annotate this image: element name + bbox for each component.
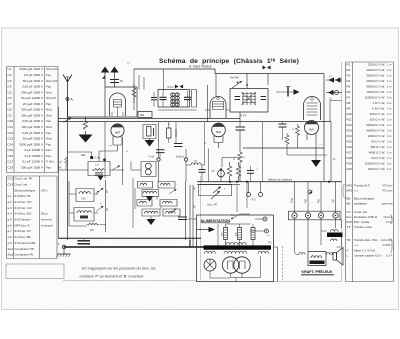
svg-text:CV: CV <box>347 210 351 214</box>
RF input terminal 1 <box>104 71 106 87</box>
svg-text:C4: C4 <box>8 85 12 89</box>
tuner mid bus <box>105 180 107 232</box>
step wire <box>222 158 240 168</box>
svg-text:C4b: C4b <box>81 198 86 201</box>
svg-text:M.F.1: M.F.1 <box>168 86 175 89</box>
output terminal T2 <box>326 92 342 94</box>
svg-text:M.F.F.: M.F.F. <box>240 114 247 118</box>
tube V1 grid <box>114 100 122 108</box>
svg-text:Pap.: Pap. <box>46 119 52 123</box>
svg-text:Bob. mobile: Bob. mobile <box>354 220 370 224</box>
svg-text:R7: R7 <box>347 95 351 99</box>
table braces <box>343 184 392 253</box>
electrolytic C17 <box>251 228 255 240</box>
electrolytic C16b <box>238 228 242 240</box>
svg-text:Cond. var. ··: Cond. var. ·· <box>15 182 31 186</box>
svg-text:T.P: T.P <box>347 225 351 229</box>
strip wires down <box>295 218 336 251</box>
tube 6V6 <box>305 121 319 135</box>
svg-text:a.6: a.6 <box>8 223 12 227</box>
svg-text:0,05 µF 1500 V: 0,05 µF 1500 V <box>22 119 44 123</box>
right feed wire <box>277 247 279 282</box>
svg-text:6×9 Gamme BE: 6×9 Gamme BE <box>15 241 36 245</box>
svg-text:200 Ω ½ W.: 200 Ω ½ W. <box>370 117 386 121</box>
svg-text:a.3: a.3 <box>8 206 12 210</box>
svg-text:Sw1: Sw1 <box>8 247 14 251</box>
coil L5 <box>143 191 157 193</box>
svg-text:échangés: échangés <box>41 223 54 227</box>
switch arrows L1 L2 <box>96 188 104 194</box>
svg-text:MA: MA <box>58 167 62 170</box>
svg-text:Transfo sortie: Transfo sortie <box>354 225 372 229</box>
node A <box>66 98 69 101</box>
svg-text:6×9 Acc. BE: 6×9 Acc. BE <box>15 235 31 239</box>
svg-text:Pap.: Pap. <box>46 142 52 146</box>
output transfo TP <box>331 229 339 231</box>
switch arrows <box>211 191 220 199</box>
svg-text:Lampes cadran 6,3 v: Lampes cadran 6,3 v <box>354 254 382 258</box>
svg-text:V: V <box>347 249 349 253</box>
svg-text:C15: C15 <box>8 148 14 152</box>
padder cap <box>178 217 187 220</box>
ground arrow output <box>315 140 317 160</box>
svg-text:0,5 µF 1500 V: 0,5 µF 1500 V <box>24 73 44 77</box>
svg-text:a.2: a.2 <box>8 200 12 204</box>
capacitor C1 on input <box>110 80 119 83</box>
resistor value table <box>346 62 394 282</box>
main wire row <box>59 169 125 171</box>
speaker <box>333 253 337 261</box>
svg-text:Rail Réf: Rail Réf <box>230 77 239 80</box>
svg-text:éléments: éléments <box>41 218 53 222</box>
left edge wire <box>58 107 60 239</box>
wire drops <box>205 122 209 182</box>
switch arrow r1 <box>169 189 177 194</box>
coil L9 <box>163 209 180 216</box>
cap outside MF1 <box>151 98 157 100</box>
svg-text:C10: C10 <box>8 119 14 123</box>
svg-text:Bl2: Bl2 <box>347 202 352 206</box>
resistor R3 <box>132 84 136 104</box>
svg-text:Excitation 1200 Ω: Excitation 1200 Ω <box>354 215 378 219</box>
svg-text:Mica: Mica <box>46 90 52 94</box>
svg-text:2000 Ω ½ W.: 2000 Ω ½ W. <box>368 167 385 171</box>
svg-text:C13: C13 <box>8 137 14 141</box>
svg-text:6×9 Osc. PO: 6×9 Osc. PO <box>15 200 33 204</box>
MF1 bottom wires <box>158 109 197 111</box>
svg-text:C3: C3 <box>8 79 12 83</box>
svg-text:20 Ω ½ W.: 20 Ω ½ W. <box>371 156 385 160</box>
trimmer bowtie 2 <box>263 66 267 70</box>
svg-text:R16: R16 <box>347 145 353 149</box>
coil L6 <box>137 200 152 207</box>
svg-text:C12: C12 <box>8 131 14 135</box>
svg-text:30000 Ω ½ W.: 30000 Ω ½ W. <box>366 73 385 77</box>
node K3 <box>157 158 160 161</box>
svg-text:Pap.: Pap. <box>46 73 52 77</box>
tube V1 envelope <box>110 93 126 116</box>
cap C7 <box>174 144 183 147</box>
svg-text:6H8: 6H8 <box>216 130 221 134</box>
svg-text:MF2: MF2 <box>347 189 353 193</box>
electrolytic C15 <box>224 228 228 240</box>
svg-text:472 kc/s: 472 kc/s <box>382 189 393 193</box>
svg-text:Valve 5 Y 3 G.B.: Valve 5 Y 3 G.B. <box>354 249 376 253</box>
tube 6M7 <box>111 124 124 137</box>
svg-text:A.: A. <box>71 98 74 102</box>
svg-text:40000 Ω ½ W.: 40000 Ω ½ W. <box>366 68 385 72</box>
HT rail upper <box>59 118 241 120</box>
svg-text:2×350 v: 2×350 v <box>382 243 393 247</box>
dial lamp <box>204 259 216 271</box>
svg-text:Cond. var. Ph: Cond. var. Ph <box>15 177 33 181</box>
pot with arrow <box>218 170 225 177</box>
svg-text:6×9 Gamme: 6×9 Gamme <box>15 218 32 222</box>
svg-text:R13: R13 <box>347 128 353 132</box>
svg-text:R2: R2 <box>347 68 351 72</box>
switch arrow <box>112 166 120 171</box>
svg-text:0,05 µF 1500 V: 0,05 µF 1500 V <box>22 85 44 89</box>
svg-text:TR: TR <box>268 242 272 245</box>
wire drop PU <box>262 122 264 182</box>
svg-text:Blocs: Blocs <box>41 212 48 216</box>
tube 6H8 <box>212 123 226 137</box>
svg-text:R₁₂: R₁₂ <box>292 129 295 131</box>
svg-text:Mica 50: Mica 50 <box>46 96 56 100</box>
output terminal T1 <box>326 79 342 81</box>
svg-text:R17: R17 <box>347 150 353 154</box>
svg-text:2000 Ω ½ W.: 2000 Ω ½ W. <box>368 134 385 138</box>
svg-text:0,05 µF 1500 V: 0,05 µF 1500 V <box>22 131 44 135</box>
svg-text:R18: R18 <box>347 156 353 160</box>
terminal T <box>62 245 66 249</box>
svg-text:4000 Ω 1 W.: 4000 Ω 1 W. <box>369 150 385 154</box>
svg-text:R1: R1 <box>347 62 351 66</box>
svg-text:Amb. PK: Amb. PK <box>206 203 218 207</box>
svg-text:P. Mét.: P. Mét. <box>46 160 55 164</box>
svg-text:Pap.: Pap. <box>46 85 52 89</box>
MF1 trimmer caps <box>160 97 192 99</box>
svg-text:1 M ½ W.: 1 M ½ W. <box>373 101 386 105</box>
svg-text:R₄: R₄ <box>168 124 171 126</box>
svg-text:R₁: R₁ <box>61 160 63 163</box>
cap arrow down <box>150 217 152 220</box>
svg-text:Transfo M.F.: Transfo M.F. <box>354 184 370 188</box>
svg-text:C6: C6 <box>8 96 12 100</box>
tube V4 envelope <box>304 97 321 121</box>
svg-text:R6: R6 <box>347 90 351 94</box>
main earth bus <box>197 181 342 183</box>
svg-text:50 Ω ½ W.: 50 Ω ½ W. <box>371 139 385 143</box>
IF transformer MF2 box <box>230 89 268 113</box>
corner box <box>330 101 342 122</box>
resistor R13 <box>285 133 289 155</box>
chassis bottom bold <box>64 246 204 248</box>
svg-text:Mica 200: Mica 200 <box>46 67 58 71</box>
svg-text:C8: C8 <box>8 108 12 112</box>
node K4 <box>184 158 187 161</box>
svg-text:Mica 200: Mica 200 <box>46 79 58 83</box>
empty stamp box <box>6 264 64 279</box>
measurement strip <box>289 211 341 220</box>
svg-text:6×9 Osc. GO: 6×9 Osc. GO <box>15 206 33 210</box>
cap C13 <box>279 124 287 127</box>
svg-text:a.7: a.7 <box>8 229 12 233</box>
svg-text:472 kc/s: 472 kc/s <box>382 184 393 188</box>
svg-text:20 µµF 1500 V: 20 µµF 1500 V <box>23 102 44 106</box>
svg-text:100000 Ω ½ W.: 100000 Ω ½ W. <box>365 95 386 99</box>
svg-text:C9: C9 <box>8 113 12 117</box>
svg-text:50 µµF 1500 V: 50 µµF 1500 V <box>23 137 44 141</box>
right box edge <box>323 74 325 149</box>
svg-text:KRAFT. PRÉLEUX: KRAFT. PRÉLEUX <box>302 269 333 274</box>
svg-text:R20: R20 <box>347 167 353 171</box>
trimmer bowtie 1 <box>175 85 179 89</box>
coil / misc table <box>7 176 58 259</box>
svg-text:Pap.: Pap. <box>46 131 52 135</box>
PU contacts <box>247 193 251 197</box>
resistor R1 vert <box>65 157 68 170</box>
cathode RC box <box>88 162 110 176</box>
svg-text:Elec.: Elec. <box>46 148 52 152</box>
svg-text:+C.A.FF: +C.A.FF <box>187 218 197 221</box>
svg-text:500 µµF 1500 V: 500 µµF 1500 V <box>21 166 44 170</box>
svg-text:C₁₃: C₁₃ <box>319 144 322 146</box>
coil L2 box <box>74 208 94 222</box>
svg-text:C2: C2 <box>8 73 12 77</box>
screen resistor zigzag <box>239 112 241 126</box>
coil L1 box <box>76 189 94 202</box>
small arrow <box>102 76 106 80</box>
svg-text:8µF: 8µF <box>222 232 224 236</box>
node K2 <box>103 158 106 161</box>
top bus wire <box>134 69 324 74</box>
power box <box>197 215 274 282</box>
resistor damp <box>87 223 99 225</box>
RF input terminal 2 <box>114 71 116 87</box>
svg-text:R₇: R₇ <box>243 157 246 159</box>
svg-text:Pap.: Pap. <box>46 166 52 170</box>
svg-text:A. Haut Parleur.: A. Haut Parleur. <box>188 65 212 69</box>
svg-text:50 µµF 1500 V: 50 µµF 1500 V <box>23 79 44 83</box>
resistor R14 <box>227 162 231 182</box>
svg-text:R8: R8 <box>347 101 351 105</box>
svg-text:0,3 A: 0,3 A <box>386 254 393 258</box>
svg-text:R4: R4 <box>347 79 351 83</box>
ground arrow 2 <box>149 139 151 141</box>
IF transformer MF1 box <box>158 90 190 108</box>
valve V <box>222 257 238 273</box>
diode mark <box>308 190 312 194</box>
svg-text:C7: C7 <box>8 102 12 106</box>
svg-text:CV1: CV1 <box>8 177 14 181</box>
mains arrow <box>197 229 209 231</box>
svg-text:R9: R9 <box>347 106 351 110</box>
transformer TR coils top <box>226 242 246 245</box>
svg-text:contacts 'P' se ferment et: contacts 'P' se ferment et 'B' s'ouvrent <box>80 275 145 279</box>
svg-text:Schéma de principe (Châssis 1ʳ: Schéma de principe (Châssis 1ʳᵉ Série) <box>159 58 299 65</box>
svg-text:100 µµF 1500 V: 100 µµF 1500 V <box>21 113 44 117</box>
fuse drop <box>237 182 247 212</box>
svg-text:oscillateur: oscillateur <box>354 202 367 206</box>
svg-text:C16: C16 <box>8 154 14 158</box>
resistor R9 <box>238 152 242 182</box>
svg-text:« »: « » <box>354 189 358 193</box>
svg-text:Mica: Mica <box>46 113 52 117</box>
svg-text:Réf: Réf <box>140 113 144 117</box>
coil L8 <box>142 209 160 216</box>
svg-text:5000 µµF 1500 V: 5000 µµF 1500 V <box>19 142 43 146</box>
RC block 1 <box>143 125 156 139</box>
svg-text:Pap.: Pap. <box>46 102 52 106</box>
bottom wires <box>210 256 261 278</box>
svg-text:R10: R10 <box>347 112 353 116</box>
svg-text:Rau: Rau <box>81 153 86 157</box>
resistor R15 <box>236 162 240 182</box>
svg-text:6×9 Bloc HF: 6×9 Bloc HF <box>15 194 31 198</box>
svg-text:8 µF 12000 V: 8 µF 12000 V <box>25 148 44 152</box>
wire x105 down <box>104 122 106 178</box>
tuner wires <box>131 162 141 171</box>
svg-text:R11: R11 <box>347 117 353 121</box>
svg-text:C1: C1 <box>8 67 12 71</box>
svg-text:2000 Ω ½ W.: 2000 Ω ½ W. <box>368 62 385 66</box>
svg-text:100 µµF 1500 V: 100 µµF 1500 V <box>21 125 44 129</box>
svg-text:Contacteur HP: Contacteur HP <box>15 247 34 251</box>
svg-text:C14: C14 <box>8 142 14 146</box>
svg-text:a.5: a.5 <box>8 218 12 222</box>
inner wires <box>218 224 253 247</box>
tuner right bus pair <box>186 182 194 248</box>
choke coil <box>191 163 201 165</box>
svg-text:10000 Ω ½ W.: 10000 Ω ½ W. <box>366 90 385 94</box>
antenna <box>63 75 72 118</box>
svg-text:C17: C17 <box>8 160 14 164</box>
svg-text:C5: C5 <box>8 90 12 94</box>
separator lines <box>63 62 342 282</box>
svg-text:100000 Ω ½ W.: 100000 Ω ½ W. <box>365 161 386 165</box>
switch above MF2 <box>237 82 239 84</box>
svg-text:R14: R14 <box>347 134 353 138</box>
svg-text:6×9 Osc. Ph: 6×9 Osc. Ph <box>15 229 32 233</box>
coil L7 <box>160 200 177 207</box>
field coil box <box>308 252 326 266</box>
svg-text:P.U.: P.U. <box>252 198 257 202</box>
MF2 coil hatch <box>243 92 255 105</box>
speaker squiggles <box>299 253 305 255</box>
arrow mark on wire <box>64 118 72 123</box>
capacitor value table <box>7 67 59 173</box>
svg-text:Transfo Alim. Prim: Transfo Alim. Prim <box>354 238 378 242</box>
svg-text:2,5 Ω: 2,5 Ω <box>386 220 393 224</box>
svg-text:200 µµF 1500 V: 200 µµF 1500 V <box>21 90 44 94</box>
MF2 trimmers <box>235 97 267 100</box>
svg-text:R19: R19 <box>347 161 353 165</box>
tuner left bus <box>68 181 70 226</box>
HT rail lower <box>59 121 332 123</box>
svg-text:Contacteur Ph: Contacteur Ph <box>15 253 34 257</box>
svg-text:50000 Ω ½ W.: 50000 Ω ½ W. <box>366 123 385 127</box>
svg-text:300 Ω ½ W.: 300 Ω ½ W. <box>370 112 386 116</box>
svg-text:Electrochimique: Electrochimique <box>15 188 36 192</box>
chassis ground <box>63 249 65 254</box>
heater wire <box>59 237 202 239</box>
RC block 2 <box>167 128 172 138</box>
tube V1 box <box>68 87 138 117</box>
svg-text:40000 Ω ½ W.: 40000 Ω ½ W. <box>366 128 385 132</box>
svg-text:8 µF 12000 V: 8 µF 12000 V <box>25 154 44 158</box>
svg-text:300 Ω 1 W.: 300 Ω 1 W. <box>370 145 385 149</box>
svg-text:450 v: 450 v <box>41 188 48 192</box>
svg-text:Masse du châssis: Masse du châssis <box>268 178 292 182</box>
svg-text:MF6 Acc. B: MF6 Acc. B <box>15 223 30 227</box>
svg-text:Mica: Mica <box>46 137 52 141</box>
svg-text:C.Au: C.Au <box>95 156 101 160</box>
svg-text:½ M ½ W.: ½ M ½ W. <box>372 106 385 110</box>
MF1 coils <box>173 93 177 107</box>
grid resistor R12 <box>296 124 300 148</box>
svg-text:a.1: a.1 <box>8 194 12 198</box>
tube V2 envelope <box>210 97 226 119</box>
svg-text:R3: R3 <box>347 73 351 77</box>
wire 6M7 cathode down <box>122 137 124 185</box>
svg-text:4V: 4V <box>212 170 215 173</box>
svg-text:« »: « » <box>354 243 358 247</box>
resistor R2 <box>85 117 87 135</box>
bottom of box <box>243 147 324 149</box>
svg-text:R15: R15 <box>347 139 353 143</box>
svg-text:0,1 µF 12000 V: 0,1 µF 12000 V <box>22 160 44 164</box>
bus drops <box>208 74 269 122</box>
svg-text:MF1: MF1 <box>347 184 353 188</box>
socket P terminals <box>263 217 267 221</box>
svg-text:R5: R5 <box>347 84 351 88</box>
cap C14 <box>199 170 206 173</box>
cap C6 <box>156 150 165 153</box>
svg-text:Mica: Mica <box>46 125 52 129</box>
svg-text:7 mA: 7 mA <box>148 155 154 159</box>
svg-text:gammes: gammes <box>382 202 393 206</box>
svg-text:Cond. Var.: Cond. Var. <box>354 210 368 214</box>
svg-text:110-245v: 110-245v <box>381 238 393 242</box>
svg-text:a.9: a.9 <box>8 241 12 245</box>
svg-text:6V6: 6V6 <box>309 127 314 131</box>
coil L3 <box>138 182 153 189</box>
svg-text:Mica: Mica <box>46 108 52 112</box>
svg-text:8µF: 8µF <box>236 232 238 236</box>
svg-text:Exc: Exc <box>347 215 352 219</box>
svg-text:CV2: CV2 <box>8 182 14 186</box>
svg-text:R12: R12 <box>347 123 353 127</box>
svg-text:TR: TR <box>347 238 351 242</box>
antenna wire down <box>67 99 69 240</box>
svg-text:a.4: a.4 <box>8 212 12 216</box>
svg-text:R₈: R₈ <box>126 151 129 153</box>
bias cell box <box>138 112 152 118</box>
transformer TR core <box>204 245 272 249</box>
6M7 cathode link <box>99 151 118 162</box>
svg-text:C11: C11 <box>8 125 14 129</box>
TR coils bottom <box>205 251 216 253</box>
ground arrow row2 <box>146 197 153 202</box>
svg-text:En s'appuyant sur les poussoir: En s'appuyant sur les poussoirs du bloc,… <box>82 267 156 271</box>
svg-text:a.8: a.8 <box>8 235 12 239</box>
wires into MF1 <box>134 69 164 110</box>
switch arrow r2 <box>169 209 177 214</box>
svg-text:ALIMENTATION: ALIMENTATION <box>201 218 231 223</box>
jack J1 <box>141 162 156 177</box>
svg-text:C₉: C₉ <box>256 169 259 171</box>
